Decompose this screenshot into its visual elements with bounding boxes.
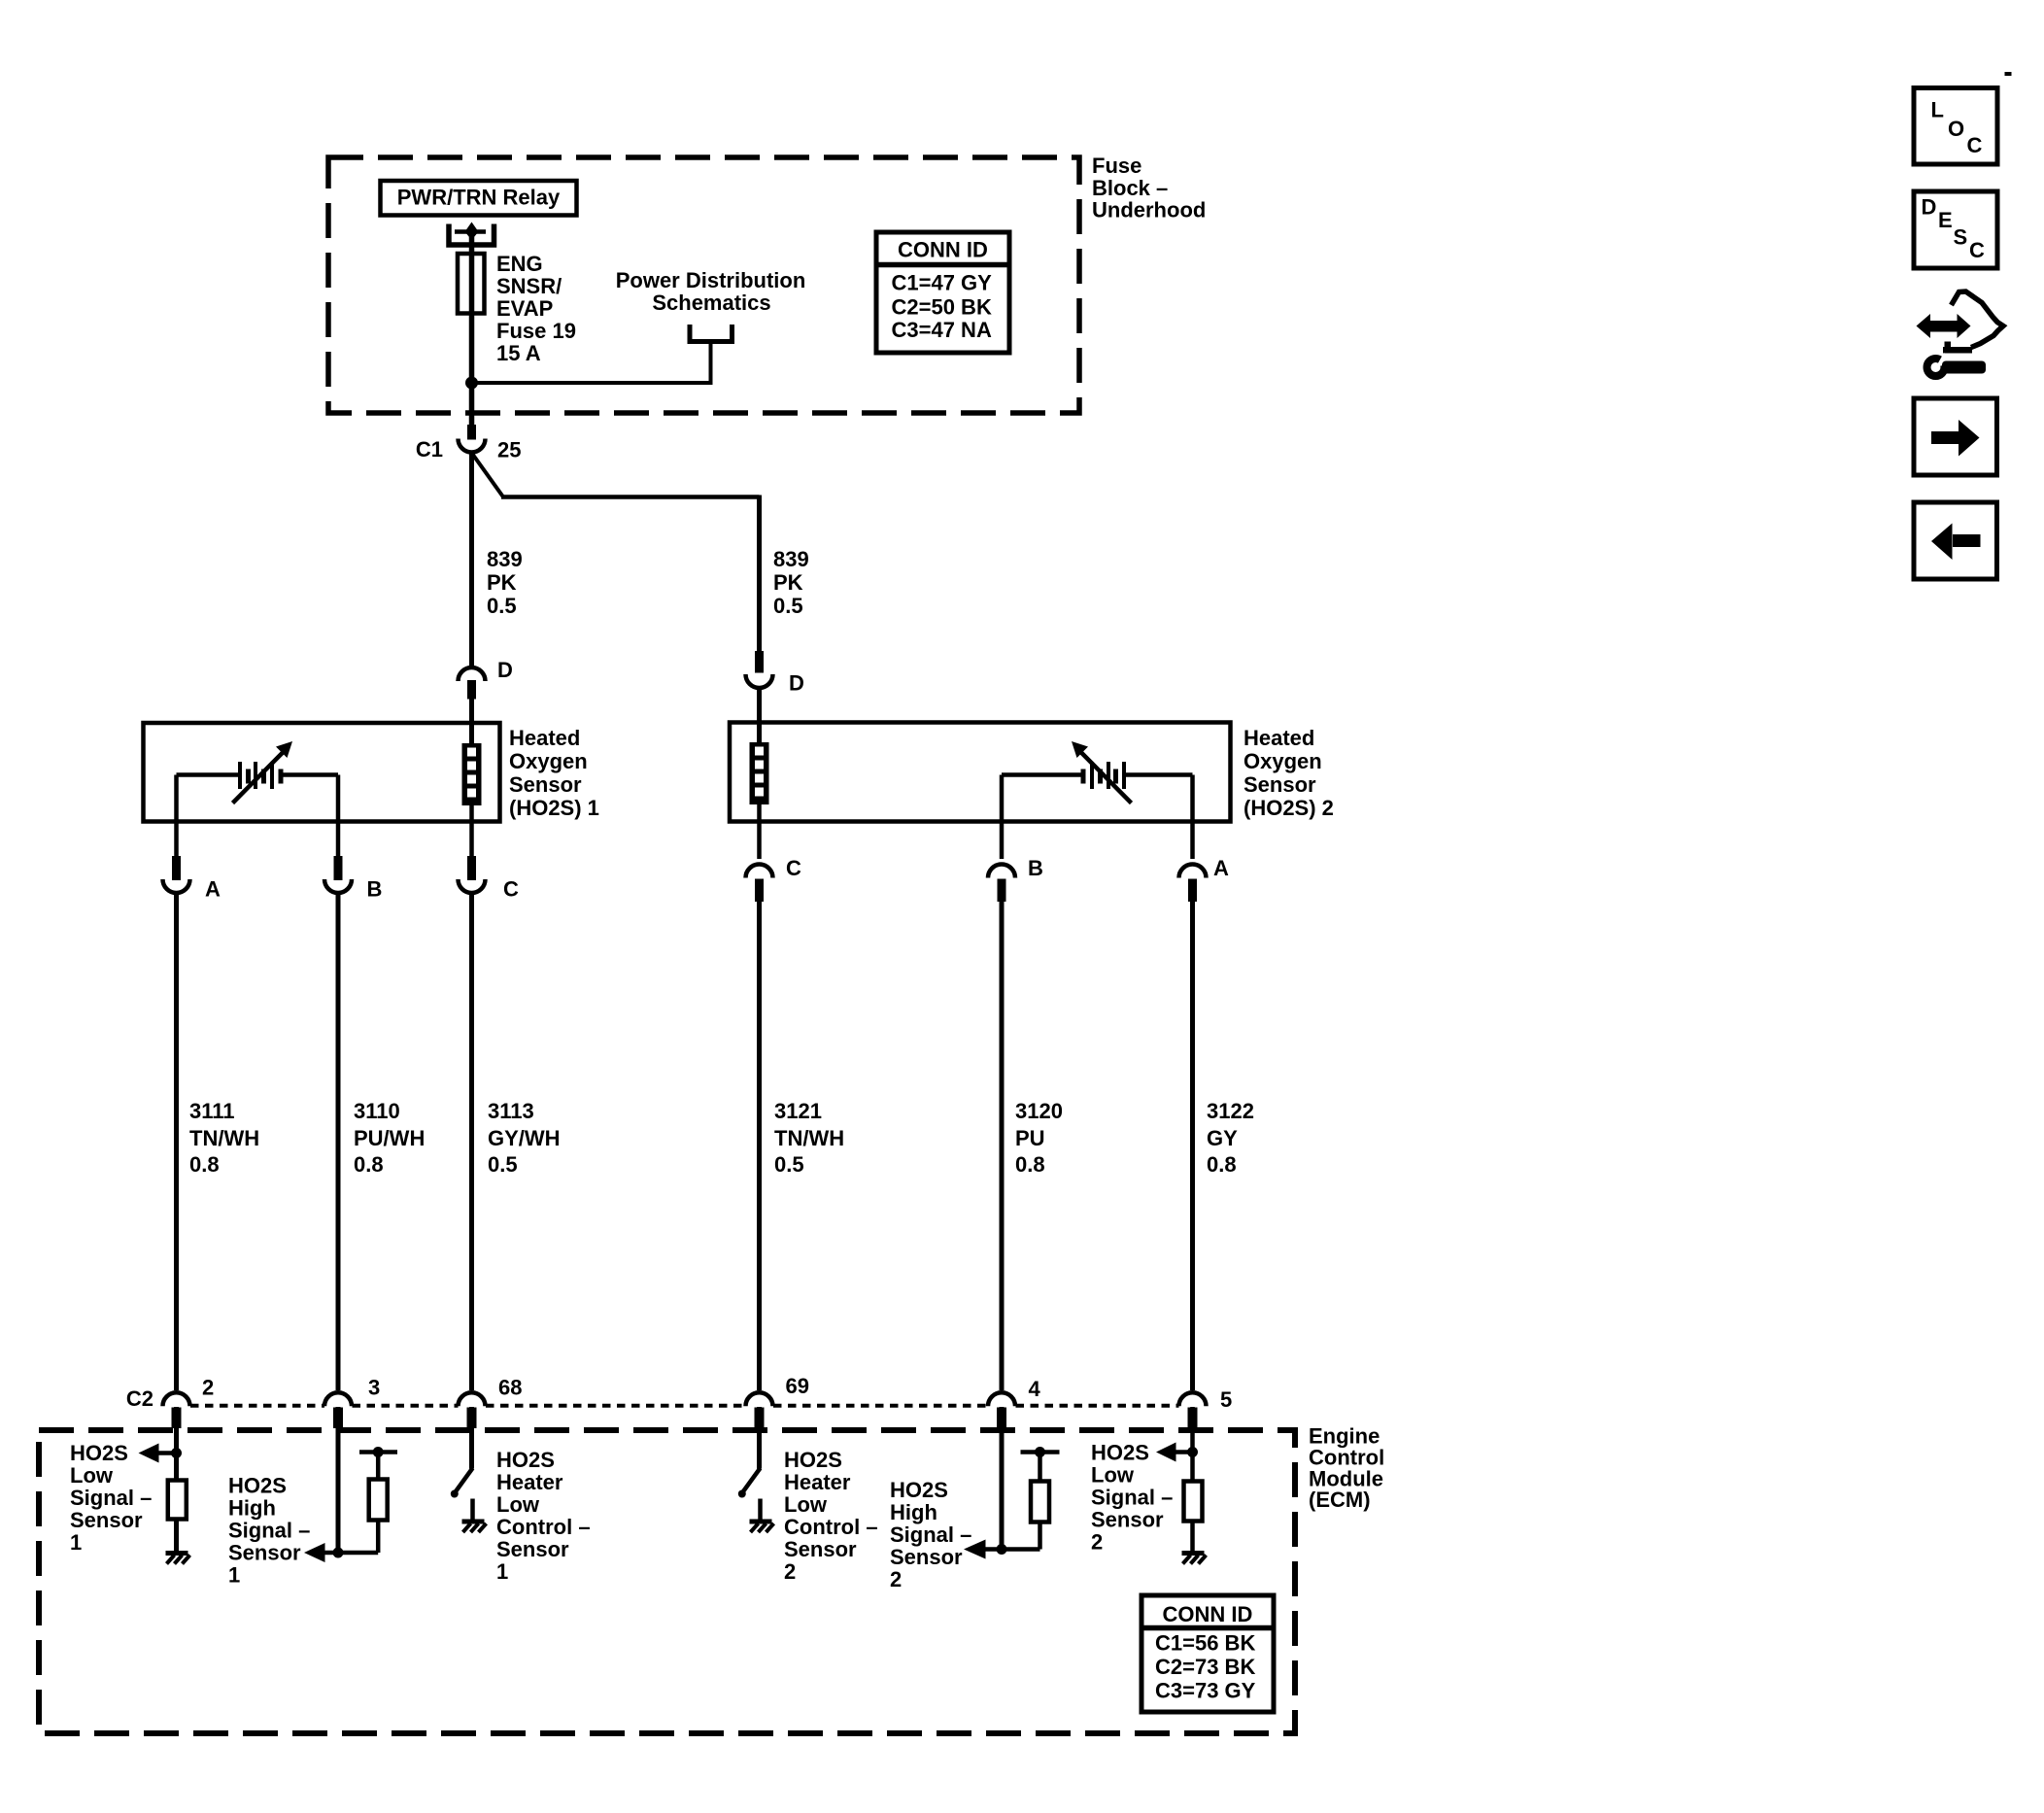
connector D right arc — [746, 674, 773, 688]
ECM pin 69 connector — [746, 1374, 809, 1428]
power distribution bracket — [688, 325, 735, 342]
svg-text:PU/WH: PU/WH — [354, 1126, 425, 1150]
svg-text:Heater: Heater — [784, 1470, 851, 1494]
svg-text:2: 2 — [890, 1567, 902, 1591]
wire label 839 PK 0.5 right — [773, 547, 809, 618]
svg-text:C2: C2 — [126, 1386, 153, 1411]
wire branch horizontal — [501, 495, 760, 499]
stray mark — [2005, 72, 2012, 76]
svg-text:1: 1 — [496, 1559, 508, 1584]
HO2S High Signal Sensor 1 label — [228, 1474, 310, 1588]
CONN ID table (ECM) — [1141, 1595, 1274, 1712]
junction dot — [465, 377, 478, 390]
sensor element battery 2 — [1072, 741, 1132, 804]
pin 69 switch contact — [758, 1499, 763, 1521]
svg-text:3122: 3122 — [1207, 1099, 1254, 1123]
DESC icon box — [1914, 191, 1997, 268]
schematic nav icon double arrow — [1917, 314, 1971, 338]
svg-text:C2=73 BK: C2=73 BK — [1155, 1655, 1255, 1679]
pin 5 arrow — [1175, 1450, 1192, 1454]
svg-text:C1: C1 — [416, 437, 443, 462]
svg-text:Signal –: Signal – — [890, 1522, 971, 1547]
wire 3113 — [469, 894, 474, 1390]
svg-text:0.5: 0.5 — [487, 594, 517, 618]
wire label 3113 GY/WH 0.5 — [488, 1099, 561, 1177]
svg-text:C2=50 BK: C2=50 BK — [892, 295, 992, 320]
sensor element battery 1 — [233, 741, 293, 804]
wire 3111 — [174, 894, 179, 1390]
svg-text:3111: 3111 — [189, 1099, 235, 1123]
wire heater 2 to box bottom — [757, 804, 762, 822]
pin 68 ground — [462, 1522, 487, 1532]
svg-text:2: 2 — [784, 1559, 796, 1584]
svg-text:1: 1 — [70, 1530, 82, 1555]
wire label 3110 PU/WH 0.8 — [354, 1099, 425, 1177]
wire relay to C1 — [469, 233, 475, 425]
pin 68 switch blade — [455, 1468, 473, 1493]
svg-text:Sensor: Sensor — [70, 1508, 143, 1532]
pin C connector (box2) — [746, 822, 802, 903]
svg-text:Heated: Heated — [1243, 726, 1314, 750]
HO2S 2 label — [1243, 726, 1334, 820]
relay pin contact bar — [455, 229, 486, 234]
svg-text:CONN ID: CONN ID — [898, 238, 988, 262]
svg-text:Fuse: Fuse — [1092, 154, 1141, 178]
svg-text:Signal –: Signal – — [70, 1486, 152, 1510]
HO2S 1 box — [144, 723, 500, 822]
ECM pin 5 connector — [1179, 1387, 1233, 1428]
schematic nav icon wrench — [1927, 353, 1987, 376]
svg-text:3120: 3120 — [1015, 1099, 1063, 1123]
pin 3 resistor top bar — [359, 1450, 397, 1454]
svg-text:15 A: 15 A — [496, 341, 541, 365]
wire D to heater 2 — [757, 690, 762, 744]
svg-text:0.8: 0.8 — [354, 1152, 384, 1177]
wire D to heater 1 — [469, 700, 474, 745]
svg-text:TN/WH: TN/WH — [189, 1126, 259, 1150]
svg-text:C: C — [1969, 238, 1985, 262]
ECM pin 4 connector — [988, 1377, 1041, 1428]
wire pin A2 inside box — [1190, 775, 1195, 822]
pin 68 switch contact — [470, 1499, 475, 1521]
pin 3 resistor — [376, 1453, 381, 1481]
HO2S Heater Low Control Sensor 2 label — [784, 1448, 878, 1584]
pin 2 wire — [174, 1407, 179, 1553]
pin 4 wire — [1000, 1407, 1005, 1550]
svg-text:Sensor: Sensor — [890, 1545, 963, 1569]
wire battery 1 left — [177, 772, 239, 777]
svg-text:Low: Low — [784, 1492, 828, 1517]
svg-text:S: S — [1954, 225, 1968, 250]
ECM connector dotted line — [190, 1404, 1179, 1408]
pin 2 ground — [166, 1554, 190, 1564]
svg-text:25: 25 — [497, 438, 521, 462]
CONN ID table (fuse block) — [876, 232, 1009, 353]
wire 3110 — [336, 894, 341, 1390]
fuse label — [496, 252, 576, 365]
svg-text:3113: 3113 — [488, 1099, 534, 1123]
svg-text:Sensor: Sensor — [784, 1537, 857, 1561]
svg-text:HO2S: HO2S — [496, 1448, 555, 1472]
svg-text:Low: Low — [70, 1463, 114, 1488]
svg-text:A: A — [205, 877, 221, 902]
svg-text:Oxygen: Oxygen — [509, 749, 588, 773]
svg-text:Control –: Control – — [784, 1515, 878, 1539]
svg-text:High: High — [228, 1496, 276, 1521]
svg-text:C1=56 BK: C1=56 BK — [1155, 1631, 1255, 1656]
wire heater 1 to box bottom — [469, 805, 474, 822]
back arrow icon box — [1914, 502, 1997, 579]
svg-text:CONN ID: CONN ID — [1163, 1602, 1253, 1626]
connector D left arc — [459, 667, 486, 681]
connector C1 arc — [459, 439, 486, 453]
pin 2 resistor — [168, 1481, 187, 1520]
ECM pin 3 connector — [324, 1376, 380, 1429]
svg-text:C3=47 NA: C3=47 NA — [892, 318, 992, 342]
svg-text:3110: 3110 — [354, 1099, 400, 1123]
LOC icon box — [1914, 88, 1997, 165]
svg-text:Signal –: Signal – — [228, 1519, 310, 1543]
pin A connector (box2) — [1179, 822, 1230, 903]
relay K PWR/TRN Relay box — [381, 181, 577, 216]
svg-text:HO2S: HO2S — [70, 1441, 128, 1465]
fuse block label — [1092, 154, 1206, 222]
pin 4 bottom wire and arrow — [985, 1547, 1040, 1552]
schematic nav icon outline arrow — [1952, 291, 2004, 348]
svg-text:Heater: Heater — [496, 1470, 563, 1494]
svg-text:Low: Low — [1091, 1463, 1135, 1488]
svg-text:2: 2 — [1091, 1530, 1103, 1555]
svg-text:Low: Low — [496, 1492, 540, 1517]
pin 5 resistor — [1184, 1482, 1203, 1522]
HO2S 2 box — [730, 723, 1231, 822]
svg-text:B: B — [1028, 856, 1043, 880]
pin 5 junction dot — [1187, 1447, 1198, 1457]
svg-text:Schematics: Schematics — [652, 291, 770, 315]
wire to power distribution — [472, 341, 711, 383]
svg-text:HO2S: HO2S — [1091, 1441, 1149, 1465]
svg-text:Signal –: Signal – — [1091, 1486, 1173, 1510]
heater element 1 — [462, 743, 482, 805]
pin 3 bottom wire and arrow — [324, 1551, 378, 1556]
svg-text:3121: 3121 — [774, 1099, 822, 1123]
pin 4 resistor top bar — [1021, 1450, 1060, 1454]
wire 839 PK left vertical — [469, 454, 474, 667]
pin 5 ground — [1182, 1554, 1207, 1564]
pin C connector (box1) — [459, 822, 520, 902]
svg-text:839: 839 — [773, 547, 809, 571]
pin 4 resistor top dot — [1035, 1447, 1045, 1457]
svg-text:(HO2S) 1: (HO2S) 1 — [509, 796, 599, 820]
wire 839 PK right vertical — [757, 496, 762, 652]
svg-text:GY: GY — [1207, 1126, 1238, 1150]
pin 69 switch blade — [742, 1468, 761, 1493]
svg-text:TN/WH: TN/WH — [774, 1126, 844, 1150]
pin 68 wire — [469, 1407, 474, 1469]
svg-text:0.8: 0.8 — [1015, 1152, 1045, 1177]
ECM pin 68 connector — [459, 1376, 523, 1429]
forward arrow icon box — [1914, 398, 1997, 475]
svg-text:2: 2 — [202, 1376, 214, 1400]
svg-text:69: 69 — [786, 1374, 809, 1398]
connector D left stub — [467, 680, 476, 700]
svg-text:(ECM): (ECM) — [1309, 1488, 1371, 1512]
svg-text:Fuse 19: Fuse 19 — [496, 319, 576, 343]
svg-text:E: E — [1938, 208, 1953, 232]
svg-text:839: 839 — [487, 547, 523, 571]
wire heater 2 top — [757, 723, 762, 743]
svg-text:PWR/TRN Relay: PWR/TRN Relay — [397, 186, 561, 210]
wire label 3111 TN/WH 0.8 — [189, 1099, 259, 1177]
svg-text:4: 4 — [1029, 1377, 1041, 1401]
svg-text:HO2S: HO2S — [890, 1478, 948, 1502]
svg-text:PK: PK — [487, 570, 517, 595]
pin 4 junction dot — [997, 1544, 1007, 1555]
heater element 2 — [750, 742, 769, 804]
pin A connector (box1) — [163, 822, 221, 902]
svg-text:GY/WH: GY/WH — [488, 1126, 561, 1150]
svg-text:PK: PK — [773, 570, 803, 595]
ECM label — [1309, 1424, 1384, 1513]
svg-text:5: 5 — [1220, 1387, 1232, 1412]
connector C1 pin 25 male stub — [467, 425, 476, 440]
svg-text:HO2S: HO2S — [228, 1474, 287, 1498]
power distribution label — [616, 268, 806, 315]
svg-text:0.8: 0.8 — [1207, 1152, 1237, 1177]
pin 2 arrow — [158, 1451, 176, 1455]
wire branch diagonal — [473, 455, 504, 497]
svg-text:D: D — [1922, 195, 1937, 220]
wire pin B2 inside box — [1000, 775, 1005, 822]
svg-text:L: L — [1931, 98, 1944, 122]
svg-text:Power Distribution: Power Distribution — [616, 268, 806, 292]
pin 3 wire — [336, 1407, 341, 1553]
svg-text:Control –: Control – — [496, 1515, 591, 1539]
ECM dashed box — [39, 1430, 1295, 1733]
svg-text:Sensor: Sensor — [1091, 1508, 1164, 1532]
relay pin socket bracket — [449, 224, 494, 246]
svg-text:High: High — [890, 1500, 937, 1524]
HO2S Heater Low Control Sensor 1 label — [496, 1448, 591, 1584]
HO2S High Signal Sensor 2 label — [890, 1478, 971, 1591]
svg-text:SNSR/: SNSR/ — [496, 274, 562, 298]
HO2S 1 label — [509, 726, 599, 820]
svg-text:C: C — [503, 877, 519, 902]
wire pin B inside box — [336, 775, 341, 822]
svg-text:3: 3 — [368, 1376, 380, 1400]
ECM pin 2 connector — [163, 1376, 215, 1429]
svg-text:C: C — [1967, 133, 1983, 157]
svg-text:Underhood: Underhood — [1092, 198, 1206, 222]
svg-text:0.5: 0.5 — [773, 594, 803, 618]
pin 3 resistor top dot — [373, 1447, 384, 1457]
svg-text:Sensor: Sensor — [509, 772, 582, 797]
svg-text:68: 68 — [498, 1376, 522, 1400]
svg-text:D: D — [497, 658, 513, 682]
pin B connector (box2) — [988, 822, 1043, 903]
pin 69 ground — [750, 1522, 774, 1532]
relay pin diamond — [465, 222, 479, 241]
svg-text:1: 1 — [228, 1563, 240, 1588]
svg-text:C3=73 GY: C3=73 GY — [1155, 1679, 1256, 1703]
svg-text:PU: PU — [1015, 1126, 1045, 1150]
svg-text:Oxygen: Oxygen — [1243, 749, 1322, 773]
svg-text:Sensor: Sensor — [228, 1541, 301, 1565]
wire battery 1 right — [283, 772, 338, 777]
svg-text:0.5: 0.5 — [488, 1152, 518, 1177]
svg-text:Sensor: Sensor — [1243, 772, 1316, 797]
svg-text:A: A — [1213, 856, 1229, 880]
wire battery 2 left — [1002, 772, 1081, 777]
svg-text:Heated: Heated — [509, 726, 580, 750]
wire label 3121 TN/WH 0.5 — [774, 1099, 844, 1177]
wire label 3122 GY 0.8 — [1207, 1099, 1254, 1177]
pin 3 junction dot — [333, 1548, 344, 1558]
svg-text:D: D — [789, 671, 804, 696]
svg-text:O: O — [1948, 117, 1964, 141]
svg-text:0.8: 0.8 — [189, 1152, 220, 1177]
HO2S Low Signal Sensor 2 label — [1091, 1441, 1173, 1555]
svg-text:ENG: ENG — [496, 252, 543, 276]
svg-text:0.5: 0.5 — [774, 1152, 804, 1177]
svg-text:C1=47 GY: C1=47 GY — [892, 271, 993, 295]
svg-text:B: B — [367, 877, 383, 902]
svg-text:(HO2S) 2: (HO2S) 2 — [1243, 796, 1334, 820]
wire label 839 PK 0.5 left — [487, 547, 523, 618]
svg-text:Sensor: Sensor — [496, 1537, 569, 1561]
pin 4 resistor — [1038, 1453, 1042, 1483]
pin 69 wire — [757, 1407, 762, 1469]
connector D right stub — [755, 651, 764, 673]
wire 3121 — [757, 902, 762, 1390]
fuse F19 ENG SNSR/EVAP 15A — [458, 254, 485, 314]
wire pin A inside box — [174, 775, 179, 822]
wire 3120 — [1000, 902, 1005, 1390]
wire 3122 — [1190, 902, 1195, 1390]
wire label 3120 PU 0.8 — [1015, 1099, 1063, 1177]
svg-text:Block –: Block – — [1092, 176, 1168, 200]
pin B connector (box1) — [324, 822, 382, 902]
pin 5 wire — [1190, 1407, 1195, 1553]
fuse block - underhood dashed box — [328, 157, 1079, 413]
HO2S Low Signal Sensor 1 label — [70, 1441, 152, 1555]
svg-text:EVAP: EVAP — [496, 296, 553, 321]
wire battery 2 right — [1126, 772, 1193, 777]
svg-text:C: C — [786, 856, 801, 880]
svg-text:HO2S: HO2S — [784, 1448, 842, 1472]
pin 2 junction dot — [171, 1448, 182, 1458]
